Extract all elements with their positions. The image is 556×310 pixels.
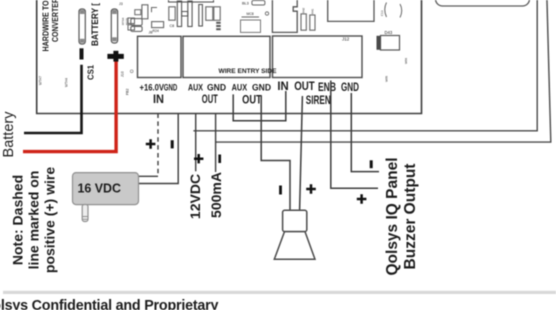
svg-text:WTH7: WTH7 (39, 76, 43, 85)
svg-text:R41: R41 (311, 8, 315, 14)
wire AUX1 GND stub (215, 114, 217, 173)
part c2 (142, 5, 148, 19)
wire GND to adapter (139, 114, 178, 184)
svg-text:BL3: BL3 (242, 2, 249, 6)
svg-text:J12: J12 (342, 37, 350, 42)
svg-text:OUT: OUT (202, 92, 218, 106)
battery black wire (24, 65, 82, 133)
PCB board outline (37, 0, 422, 114)
svg-text:GND: GND (341, 80, 359, 94)
svg-text:FB2: FB2 (126, 89, 130, 95)
connector pin bar 3 (199, 5, 203, 27)
battery black connector dash (80, 48, 84, 59)
svg-text:Qolsys Confidential and Propri: Qolsys Confidential and Proprietary (0, 298, 219, 310)
plus marker 12VDC (194, 154, 203, 163)
part R24 (152, 22, 164, 28)
small parts column x128 (128, 18, 135, 24)
svg-text:W05: W05 (385, 76, 389, 83)
svg-text:12VDC: 12VDC (187, 174, 203, 219)
svg-text:Note: Dashed: Note: Dashed (10, 175, 26, 265)
svg-text:GND: GND (164, 82, 178, 93)
U-connector top right (328, 0, 374, 21)
connector pin bar 1 (177, 1, 181, 27)
speaker driver box (283, 210, 307, 231)
svg-text:BATTERY [: BATTERY [ (90, 3, 100, 46)
link between pins (182, 12, 188, 17)
part C8 (169, 7, 175, 20)
svg-text:IN: IN (153, 92, 164, 106)
svg-text:WIRE ENTRY SIDE: WIRE ENTRY SIDE (219, 68, 277, 75)
battery red wire (23, 62, 116, 152)
16 VDC adapter box (73, 173, 139, 205)
svg-text:D43: D43 (385, 30, 393, 35)
stacked bars c14 (216, 22, 221, 24)
part c13 (214, 7, 220, 20)
connector pin bar 2 (188, 1, 192, 27)
svg-text:OUT: OUT (242, 93, 262, 107)
minus marker adapter (171, 140, 174, 148)
svg-text:C8: C8 (170, 24, 175, 28)
connector J3 right (111, 9, 117, 43)
svg-text:MC8: MC8 (247, 12, 254, 16)
battery plus cross (107, 54, 123, 59)
minus marker 12VDC (218, 155, 221, 164)
part c12 (206, 7, 213, 20)
speaker horn (274, 232, 315, 260)
svg-text:IN: IN (277, 79, 288, 93)
part c3 (135, 10, 141, 15)
terminal block C J12 (273, 36, 363, 78)
bracket c4 (152, 8, 158, 13)
cap R41 (310, 15, 315, 30)
terminal block A (138, 36, 182, 77)
svg-text:J3: J3 (119, 2, 123, 6)
plus marker speaker (306, 184, 316, 193)
svg-text:W06: W06 (404, 58, 408, 65)
svg-text:WTH4: WTH4 (65, 78, 69, 87)
wire GND buzzer minus (351, 93, 379, 172)
minus marker buzzer (370, 160, 373, 168)
wire SIREN OUT to speaker (300, 96, 303, 210)
svg-text:OUT: OUT (294, 79, 315, 93)
svg-text:R24: R24 (153, 29, 159, 33)
svg-text:Buzzer Output: Buzzer Output (402, 164, 419, 270)
top edge bar (169, 0, 214, 2)
backplate outer edge (216, 0, 551, 142)
bracket curves (385, 3, 387, 18)
svg-text:B105: B105 (125, 18, 129, 25)
wire ENB buzzer plus (331, 81, 378, 189)
wire AUX1 OUT stub (195, 114, 197, 172)
svg-text:16 VDC: 16 VDC (78, 182, 122, 196)
svg-text:R42: R42 (302, 7, 306, 13)
plus marker buzzer (357, 194, 367, 203)
svg-text:SIREN: SIREN (306, 93, 331, 107)
svg-text:500mA: 500mA (208, 172, 224, 218)
wire AUX2 OUT to SIREN IN (233, 91, 286, 121)
backplate top-right rounded module (436, 0, 530, 6)
svg-text:Battery: Battery (1, 111, 17, 158)
svg-text:positive (+) wire: positive (+) wire (42, 167, 58, 273)
plus marker adapter (146, 139, 156, 149)
connector J14 left (79, 9, 85, 44)
svg-text:ENB: ENB (318, 80, 336, 94)
small circle (265, 12, 268, 15)
svg-text:line marked on: line marked on (26, 171, 42, 270)
svg-text:CONVERTER: CONVERTER (50, 0, 60, 42)
capacitor pair c1 (131, 19, 142, 26)
pad circle (130, 70, 133, 73)
footer separator (3, 291, 556, 294)
radio module U7 (272, 0, 297, 32)
svg-text:J10: J10 (121, 71, 125, 77)
wire dashed +16V to adapter (157, 114, 159, 177)
adapter plug prong (82, 205, 88, 222)
svg-text:CS1: CS1 (86, 65, 96, 80)
svg-text:Qolsys IQ Panel: Qolsys IQ Panel (384, 157, 401, 275)
terminal block B (183, 36, 270, 77)
wire AUX2 GND to speaker (261, 95, 290, 210)
backplate inner edge (193, 0, 537, 131)
minus marker speaker (279, 186, 282, 195)
svg-text:C13: C13 (380, 10, 384, 16)
cap R42 (301, 14, 306, 30)
